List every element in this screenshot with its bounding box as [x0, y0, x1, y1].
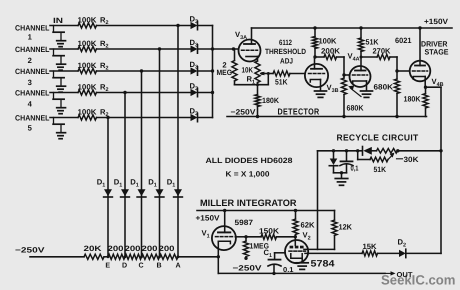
svg-text:51K: 51K — [275, 78, 288, 87]
svg-text:5987: 5987 — [235, 218, 254, 227]
svg-text:30K: 30K — [404, 155, 420, 164]
svg-text:180K: 180K — [404, 95, 421, 104]
svg-text:200: 200 — [159, 244, 175, 253]
svg-text:0.1: 0.1 — [283, 266, 294, 274]
svg-text:E: E — [105, 262, 110, 270]
svg-text:680K: 680K — [374, 83, 394, 92]
svg-text:15K: 15K — [363, 242, 377, 251]
svg-text:150K: 150K — [259, 227, 280, 236]
svg-text:6021: 6021 — [395, 36, 412, 45]
svg-text:200: 200 — [108, 244, 124, 253]
svg-text:CHANNEL: CHANNEL — [15, 24, 50, 33]
svg-text:K = X 1,000: K = X 1,000 — [226, 170, 270, 179]
svg-text:2: 2 — [28, 56, 32, 65]
svg-text:180K: 180K — [262, 96, 279, 105]
svg-text:C1: C1 — [264, 248, 273, 259]
svg-text:200: 200 — [142, 244, 158, 253]
svg-text:RECYCLE CIRCUIT: RECYCLE CIRCUIT — [337, 133, 419, 143]
svg-text:200: 200 — [125, 244, 141, 253]
svg-text:1: 1 — [28, 33, 33, 42]
svg-text:D1: D1 — [97, 178, 106, 189]
svg-text:20K: 20K — [84, 244, 103, 253]
svg-text:V4B: V4B — [432, 77, 444, 88]
svg-text:100K: 100K — [78, 39, 98, 48]
svg-text:SeekIC.com: SeekIC.com — [381, 272, 456, 287]
svg-text:MILLER INTEGRATOR: MILLER INTEGRATOR — [200, 198, 297, 208]
svg-text:62K: 62K — [301, 221, 315, 230]
svg-text:THRESHOLD: THRESHOLD — [265, 47, 306, 56]
svg-text:D: D — [122, 262, 127, 270]
svg-text:B: B — [156, 262, 161, 270]
svg-text:A: A — [175, 262, 180, 270]
svg-text:R2: R2 — [100, 61, 109, 72]
svg-text:V3A: V3A — [235, 30, 247, 41]
svg-text:3: 3 — [28, 78, 32, 87]
svg-text:D2: D2 — [398, 238, 407, 249]
svg-text:D1: D1 — [114, 178, 123, 189]
svg-text:CHANNEL: CHANNEL — [15, 114, 50, 123]
svg-text:−250V: −250V — [15, 246, 46, 255]
svg-text:R2: R2 — [100, 82, 109, 93]
svg-text:OUT: OUT — [397, 271, 414, 279]
svg-text:V3B: V3B — [327, 83, 339, 94]
svg-text:6112: 6112 — [279, 38, 292, 47]
svg-text:−250V: −250V — [233, 264, 263, 273]
svg-text:D1: D1 — [130, 178, 139, 189]
svg-text:MEG: MEG — [217, 68, 233, 77]
svg-text:200K: 200K — [321, 47, 341, 56]
svg-text:680K: 680K — [347, 104, 364, 113]
svg-text:R2: R2 — [100, 107, 109, 118]
svg-text:DETECTOR: DETECTOR — [278, 107, 320, 117]
svg-text:CHANNEL: CHANNEL — [15, 89, 50, 98]
svg-text:0,1: 0,1 — [351, 164, 359, 172]
svg-text:100K: 100K — [78, 61, 98, 70]
svg-text:−250V: −250V — [231, 108, 257, 117]
svg-text:51K: 51K — [366, 38, 379, 47]
svg-text:R2: R2 — [100, 39, 109, 50]
svg-text:V2: V2 — [303, 231, 311, 242]
svg-text:4: 4 — [28, 100, 33, 109]
svg-text:R2: R2 — [100, 15, 109, 26]
svg-text:STAGE: STAGE — [425, 48, 449, 57]
svg-text:V4A: V4A — [348, 52, 360, 63]
svg-text:D1: D1 — [148, 178, 157, 189]
svg-text:100K: 100K — [78, 82, 98, 91]
svg-text:51K: 51K — [374, 165, 387, 174]
svg-text:270K: 270K — [373, 47, 391, 56]
svg-text:D1: D1 — [167, 178, 176, 189]
svg-text:100K: 100K — [78, 107, 98, 116]
svg-text:100K: 100K — [319, 37, 337, 46]
svg-text:100K: 100K — [78, 15, 98, 24]
svg-text:+150V: +150V — [424, 17, 449, 26]
svg-text:V1: V1 — [202, 229, 210, 240]
svg-text:5784: 5784 — [311, 259, 336, 269]
svg-text:+150V: +150V — [196, 214, 221, 223]
svg-text:CHANNEL: CHANNEL — [15, 67, 50, 76]
svg-text:IN: IN — [53, 16, 63, 25]
svg-text:5: 5 — [28, 124, 33, 133]
svg-text:ADJ: ADJ — [280, 57, 293, 66]
svg-text:12K: 12K — [339, 223, 353, 232]
svg-text:10K: 10K — [242, 66, 254, 75]
svg-text:CHANNEL: CHANNEL — [15, 45, 50, 54]
svg-text:C: C — [138, 262, 143, 270]
svg-text:ALL DIODES HD6028: ALL DIODES HD6028 — [206, 156, 293, 165]
svg-text:R1: R1 — [247, 75, 256, 86]
